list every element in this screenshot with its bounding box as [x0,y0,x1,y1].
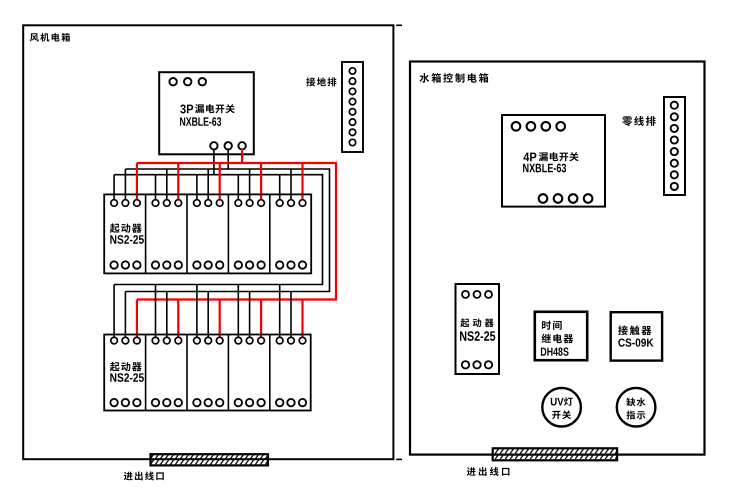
neutral bus bar N: body [664,97,685,195]
starter row 2 bottom pins (15) [110,399,306,406]
label: 起动器 (starter, row 2 module M6) [110,362,142,372]
UV lamp switch SB1: round button [542,388,581,427]
breaker QF1 output pins (bottom) [210,142,246,149]
starter row 1 bottom pins (15) [110,261,306,268]
label: 时间 (KT1 line 1) [542,321,562,330]
starter KM0 top pins (3) [462,291,492,298]
label: 接触器 (contactor) [618,326,651,336]
breaker QF2 output pins (bottom, 4) [539,194,593,203]
label: 零线排 (neutral bar) [622,116,656,126]
wires: bus L1 drops to row-1 starter pins 1 [114,175,280,200]
cable entry gland (hatched) on E2 bottom [493,448,617,460]
enclosure E1: fan control cabinet outline [23,25,393,459]
starter bank row 2 (M6-M10): outline [104,335,311,411]
label: UV灯 (SB1 line 1) [551,397,573,406]
label: CS-09K (KM1 model) [618,338,653,346]
label: 起动器 (starter KM0) [460,318,493,327]
wires: bus L2 drops to row-2 starter pins 2 [125,292,291,338]
wires: bus L3 red drops to row-1 starter pins 3 [137,163,303,200]
starter row 2 module dividers [146,335,270,411]
wire: QF1 pin L1 drop to bus L1 [213,149,215,175]
wires: bus L3 red drops to row-2 starter pins 3 [137,300,303,338]
starter KM0: body (right cabinet) [456,284,500,374]
label: 进出线口 (cable entry, E2) [467,467,510,476]
starter row 1 module dividers [146,194,270,273]
label: 水箱控制电箱 (water tank control cabinet) [420,73,489,83]
wire: bus L1 black (top run, right wrap, inter-row run) [114,175,322,285]
label: 风机电箱 (fan cabinet) [30,33,70,42]
label: NS2-25 (row 1 module M1 model) [110,235,144,244]
label: 指示 (HL1 line 2) [626,411,645,420]
breaker QF2: 4P leakage switch body [502,115,605,207]
wires: bus L1 drops to row-2 starter pins 1 [114,285,280,338]
label: DH48S (KT1 model) [541,347,569,355]
breaker QF1: 3P leakage switch body [159,72,254,154]
label: NXBLE-63 (QF1 model) [180,117,221,126]
neutral bar N terminals (8) [671,102,678,190]
wires: bus L2 drops to row-1 starter pins 2 [125,169,291,200]
label: 4P漏电开关 [523,152,578,161]
wire: QF1 pin L2 drop to bus L2 [227,149,229,170]
label: NS2-25 (starter KM0 model) [460,331,495,341]
wire: bus L2 black (top run, right wrap, inter-row run) [125,169,329,292]
starter bank row 1 (M1-M5): outline [104,194,311,273]
ground bar PE terminals (8) [349,68,355,146]
breaker QF2 input pins (top, 4) [512,122,565,131]
stray tick bottom-right of E1 [396,458,402,460]
ground bus bar PE: 接地排 body [342,62,363,152]
label: 起动器 (starter, row 1 module M1) [110,223,142,233]
starter row 1 top pins (15) [111,200,306,207]
time relay KT1: body [535,312,587,360]
label: 继电器 (KT1 line 2) [541,334,573,343]
label: 接地排 (ground bar) [306,77,336,86]
water-shortage indicator HL1: round lamp [617,388,656,427]
wire: bus L3 red (top run, right wrap, inter-row run) [137,163,336,300]
label: NXBLE-63 (QF2 model) [523,164,566,173]
starter row 2 top pins (15) [111,337,306,344]
enclosure E2: water-tank control cabinet outline [410,62,705,455]
cable entry gland (hatched) on E1 bottom [151,454,269,465]
label: NS2-25 (row 2 module M6 model) [110,373,144,382]
label: 进出线口 (cable entry, E1) [124,471,164,480]
starter KM0 bottom pins (3) [462,361,492,368]
contactor KM1: body [611,312,662,360]
label: 缺水 (HL1 line 1) [626,398,645,407]
wire: QF1 pin L3 (red) drop to bus L3 [241,149,243,164]
label: 开关 (SB1 line 2) [552,410,571,419]
stray tick top-right of E1 [396,24,402,26]
breaker QF1 input pins (top) [169,78,206,85]
label: 3P漏电开关 [180,104,235,113]
